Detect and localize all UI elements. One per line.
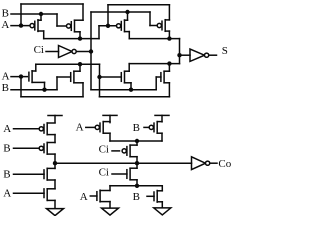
- svg-text:Ci: Ci: [34, 44, 44, 56]
- svg-text:A: A: [2, 71, 10, 83]
- svg-text:B: B: [133, 122, 140, 134]
- svg-text:A: A: [3, 123, 11, 135]
- svg-text:B: B: [2, 82, 9, 94]
- svg-text:Co: Co: [218, 158, 231, 170]
- svg-text:A: A: [1, 19, 9, 31]
- svg-text:A: A: [76, 121, 84, 133]
- svg-text:Ci: Ci: [99, 166, 109, 178]
- svg-text:A: A: [3, 188, 11, 200]
- svg-text:Ci: Ci: [99, 143, 109, 155]
- svg-text:A: A: [80, 191, 88, 203]
- svg-text:B: B: [3, 169, 10, 181]
- svg-text:B: B: [3, 143, 10, 155]
- svg-text:B: B: [2, 7, 9, 19]
- svg-text:S: S: [222, 45, 228, 57]
- svg-text:B: B: [133, 191, 140, 203]
